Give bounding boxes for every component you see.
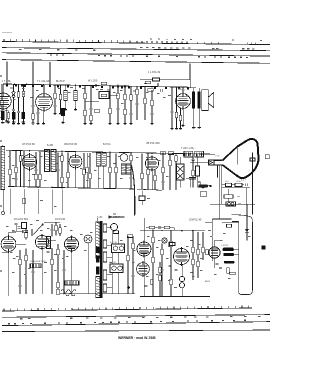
svg-text:T 1 121-184: T 1 121-184 [37,80,51,83]
svg-text:L14: L14 [225,181,229,183]
svg-text:T+60: T+60 [97,217,103,219]
svg-text:W L 200: W L 200 [88,80,98,83]
svg-text:4*UL48+F: 4*UL48+F [109,216,120,219]
svg-text:BL 80 P: BL 80 P [56,80,65,83]
svg-text:T-L4: T-L4 [181,90,186,92]
svg-text:4/0-ACF 801: 4/0-ACF 801 [14,218,29,221]
svg-text:T L80 L L80+: T L80 L L80+ [181,148,195,150]
svg-text:L-BT13: L-BT13 [222,245,229,247]
svg-text:VB PCL 800: VB PCL 800 [146,142,160,145]
svg-text:B+DB: B+DB [47,145,54,147]
svg-text:b 45: b 45 [216,156,221,158]
svg-text:WERNER · mod W-76/B: WERNER · mod W-76/B [118,336,156,340]
svg-text:4/B-PCF 80: 4/B-PCF 80 [64,143,78,146]
svg-text:B-POA: B-POA [103,143,111,146]
svg-text:2/0/PCL 85: 2/0/PCL 85 [189,218,202,221]
svg-text:B LT 3B: B LT 3B [110,242,117,244]
svg-text:4/0 PL36: 4/0 PL36 [55,218,66,221]
svg-text:1 L PCL 82: 1 L PCL 82 [148,71,161,74]
svg-text:1 T + BL: 1 T + BL [2,80,12,83]
svg-text:L10B A-DB T-DB: L10B A-DB T-DB [30,260,46,263]
svg-text:AB13: AB13 [205,280,211,283]
svg-text:4/T-PCF 80: 4/T-PCF 80 [22,143,35,146]
svg-text:A-4.T: A-4.T [241,179,247,182]
